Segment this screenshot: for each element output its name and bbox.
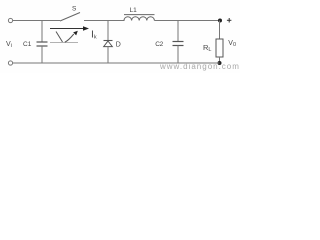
capacitor C1 [37,21,48,64]
plus sign output [227,18,232,23]
diode D [104,21,113,64]
capacitor C2 [173,21,184,64]
input terminal top-left [8,18,12,22]
svg-text:RL: RL [203,43,211,53]
wire top after switch [84,20,125,22]
svg-text:S: S [72,6,77,13]
svg-text:V0: V0 [228,40,236,48]
svg-text:www.diangon.com: www.diangon.com [159,62,240,71]
svg-text:Vi: Vi [6,41,12,49]
switch S blade [60,13,80,22]
bottom wire [13,62,220,64]
wire top-left horizontal [13,20,60,22]
transistor emitter arrow [65,31,78,42]
transistor base line [50,42,78,44]
transistor collector stroke [56,32,63,43]
current arrow Ik [50,26,89,31]
svg-text:C2: C2 [155,41,163,48]
wire top-right [154,20,220,22]
inductor L1 [124,15,155,21]
svg-text:C1: C1 [23,41,32,48]
resistor RL [216,21,223,64]
input terminal bottom-left [8,61,12,65]
junction dot top-right [218,19,222,23]
junction dot bottom-right [218,61,222,65]
svg-text:L1: L1 [130,7,138,14]
svg-text:Ik: Ik [91,29,97,41]
svg-text:D: D [116,42,121,49]
